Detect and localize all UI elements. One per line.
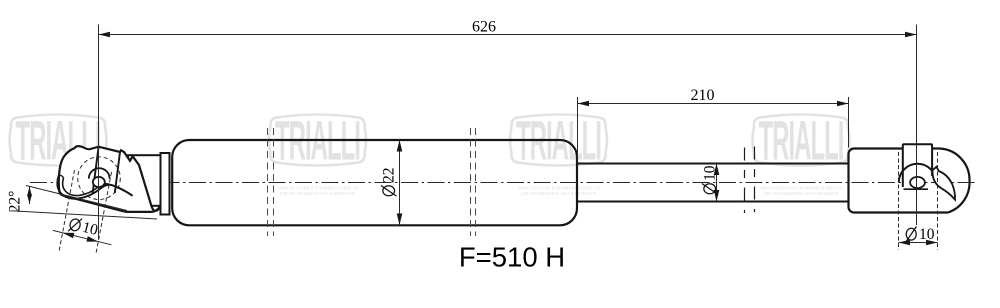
svg-text:626: 626 — [472, 19, 496, 36]
svg-text:210: 210 — [691, 87, 715, 104]
svg-text:АМОРТИЗАТОРЫ И ПРУЖИНЫ ПОДВЕСК: АМОРТИЗАТОРЫ И ПРУЖИНЫ ПОДВЕСКИ — [276, 185, 359, 190]
svg-text:ДЛЯ АВТОМОБИЛЕЙ LADA И ИНОМАРО: ДЛЯ АВТОМОБИЛЕЙ LADA И ИНОМАРОК — [763, 191, 839, 196]
svg-text:АМОРТИЗАТОРЫ И ПРУЖИНЫ ПОДВЕСК: АМОРТИЗАТОРЫ И ПРУЖИНЫ ПОДВЕСКИ — [760, 185, 843, 190]
svg-text:F=510 H: F=510 H — [459, 242, 565, 273]
svg-text:ДЛЯ АВТОМОБИЛЕЙ LADA И ИНОМАРО: ДЛЯ АВТОМОБИЛЕЙ LADA И ИНОМАРОК — [521, 191, 597, 196]
svg-text:10: 10 — [919, 226, 935, 243]
svg-text:22°: 22° — [7, 191, 24, 213]
svg-text:АМОРТИЗАТОРЫ И ПРУЖИНЫ ПОДВЕСК: АМОРТИЗАТОРЫ И ПРУЖИНЫ ПОДВЕСКИ — [517, 185, 600, 190]
svg-text:ДЛЯ АВТОМОБИЛЕЙ LADA И ИНОМАРО: ДЛЯ АВТОМОБИЛЕЙ LADA И ИНОМАРОК — [280, 191, 356, 196]
svg-text:22: 22 — [381, 168, 398, 184]
svg-text:10: 10 — [702, 165, 719, 181]
